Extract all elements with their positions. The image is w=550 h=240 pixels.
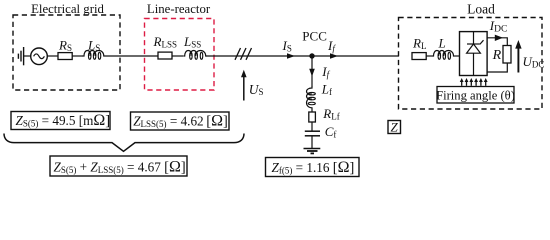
svg-text:PCC: PCC <box>302 28 327 43</box>
arrow If right <box>330 53 338 59</box>
arrow UDC <box>515 40 521 73</box>
arrow If down <box>309 69 315 77</box>
inductor LSS <box>183 51 206 60</box>
wire <box>206 55 399 57</box>
resistor RLf <box>309 112 316 122</box>
thyristor U1 <box>467 32 484 76</box>
inductor L (load) <box>432 51 454 60</box>
AC source <box>31 48 48 65</box>
wire <box>105 55 159 57</box>
wire <box>47 55 58 57</box>
wire <box>454 55 460 57</box>
break slashes <box>235 48 252 60</box>
arrow US <box>241 70 247 101</box>
Firing angle box <box>437 87 514 104</box>
resistor R (load) <box>503 46 511 64</box>
svg-text:Electrical grid: Electrical grid <box>31 2 104 16</box>
wire DC bottom <box>487 63 507 72</box>
value box ZS(5) <box>11 112 110 130</box>
wire <box>311 122 313 131</box>
svg-text:L: L <box>438 36 446 51</box>
dashed box: Line-reactor <box>145 19 215 91</box>
ground (filter) <box>304 149 321 154</box>
node PCC <box>309 53 314 58</box>
wire <box>72 55 83 57</box>
resistor RL <box>412 53 426 60</box>
capacitor Cf <box>305 131 320 136</box>
wire <box>311 109 313 113</box>
wire <box>311 136 313 148</box>
arrow IS <box>287 53 295 59</box>
svg-text:Z: Z <box>391 120 399 135</box>
wire <box>426 55 432 57</box>
value box ZLSS(5) <box>131 112 230 130</box>
wire: filter branch <box>311 56 313 87</box>
inductor Lf <box>307 87 316 109</box>
dashed box: Electrical grid <box>13 15 120 90</box>
svg-text:Firing angle (θ): Firing angle (θ) <box>436 88 515 102</box>
ground (grid source) <box>18 47 23 65</box>
firing pulse arrows <box>460 78 488 86</box>
svg-text:R: R <box>492 48 502 63</box>
resistor RS <box>58 53 72 60</box>
thyristor bridge box <box>460 32 488 76</box>
svg-text:Load: Load <box>467 2 495 17</box>
wire <box>24 55 31 57</box>
inductor LS <box>83 51 105 60</box>
dashed box: Load <box>399 18 543 110</box>
wire IDC top <box>487 38 507 46</box>
underbrace <box>4 134 244 152</box>
resistor RLSS <box>158 52 172 59</box>
box Z <box>388 121 401 134</box>
value box Zf(5) <box>266 158 360 177</box>
arrow IDC <box>495 35 503 41</box>
svg-text:Line-reactor: Line-reactor <box>147 2 211 16</box>
value box ZS+ZLSS <box>50 156 187 176</box>
wire <box>172 55 183 57</box>
